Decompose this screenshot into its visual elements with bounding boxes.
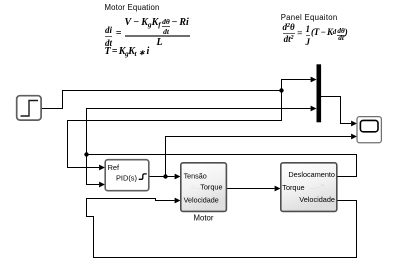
junction dot A (279, 88, 283, 92)
annotation Panel Equaiton: equals sign (297, 30, 302, 40)
wire PID output to junction B (149, 176, 166, 178)
svg-text:Motor: Motor (194, 214, 214, 223)
annotation Panel Equaiton title (281, 13, 338, 22)
svg-text:Deslocamento: Deslocamento (288, 170, 335, 179)
annotation Motor Equation formula: di/dt fraction (105, 26, 112, 48)
annotation Panel Equaiton: (T - Kd dtheta/dt) (311, 28, 347, 41)
annotation Motor Equation: numerator V - KgKf dtheta/dt - Ri (125, 18, 189, 35)
scope block (357, 117, 381, 143)
svg-text:Ref: Ref (108, 163, 120, 172)
svg-text:PID(s): PID(s) (116, 173, 137, 182)
arrowhead Motor Tensao input (175, 174, 181, 180)
wire step output to junction A (42, 91, 282, 109)
svg-text:Velocidade: Velocidade (299, 195, 335, 204)
annotation Motor Equation: denominator L (157, 38, 163, 48)
annotation Motor Equation: main fraction bar (125, 35, 190, 36)
svg-text:…:··′″: …:··′″ (309, 185, 325, 191)
step source block (17, 96, 41, 120)
annotation Panel Equaiton: 1/J fraction (306, 25, 311, 47)
wire node C down to PID input 2 (87, 155, 100, 185)
annotation Motor Equation: equals sign (116, 29, 122, 39)
wire junction A down and left to PID input 1 (Ref) (68, 91, 282, 168)
arrowhead mux input 1 (311, 77, 317, 83)
arrowhead scope input 2 (351, 134, 357, 140)
arrowhead mux input 2 (311, 106, 317, 112)
Panel subsystem block (281, 163, 337, 212)
arrowhead PID input 2 (99, 182, 105, 188)
arrowhead Motor Velocidade input (175, 198, 181, 204)
svg-text:Torque: Torque (200, 182, 222, 191)
mux block (317, 64, 322, 122)
wire Motor Torque output to Panel Torque input (227, 188, 275, 190)
wire junction B to Motor Tensao input (166, 176, 175, 178)
wire mux output to scope input 1 (321, 97, 351, 124)
svg-text:Tensão: Tensão (184, 171, 207, 180)
wire node C up to mux input 2 (87, 109, 311, 155)
annotation Motor Equation title (105, 3, 160, 12)
annotation Motor Equation: T = KgKt * i (105, 47, 149, 57)
PID controller block (105, 160, 149, 191)
Motor block label (194, 214, 214, 223)
svg-text:Velocidade: Velocidade (184, 195, 219, 204)
annotation Panel Equaiton formula: d2theta/dt2 fraction (283, 23, 295, 44)
wire junction B up and right to scope input 2 (166, 137, 352, 177)
wire Panel Deslocamento output feedback to node C (87, 155, 357, 177)
svg-text:·:·.…: ·:·.… (190, 185, 203, 191)
svg-text:Torque: Torque (282, 183, 304, 192)
junction dot B (163, 174, 167, 178)
arrowhead scope input 1 (351, 121, 357, 127)
arrowhead Panel Torque input (275, 186, 281, 192)
arrowhead PID input 1 (99, 165, 105, 171)
wire junction A up to mux input 1 (282, 80, 311, 91)
Motor subsystem block (181, 163, 227, 212)
wire Panel Velocidade output feedback to Motor Velocidade input (87, 199, 357, 258)
junction dot C (84, 152, 88, 156)
